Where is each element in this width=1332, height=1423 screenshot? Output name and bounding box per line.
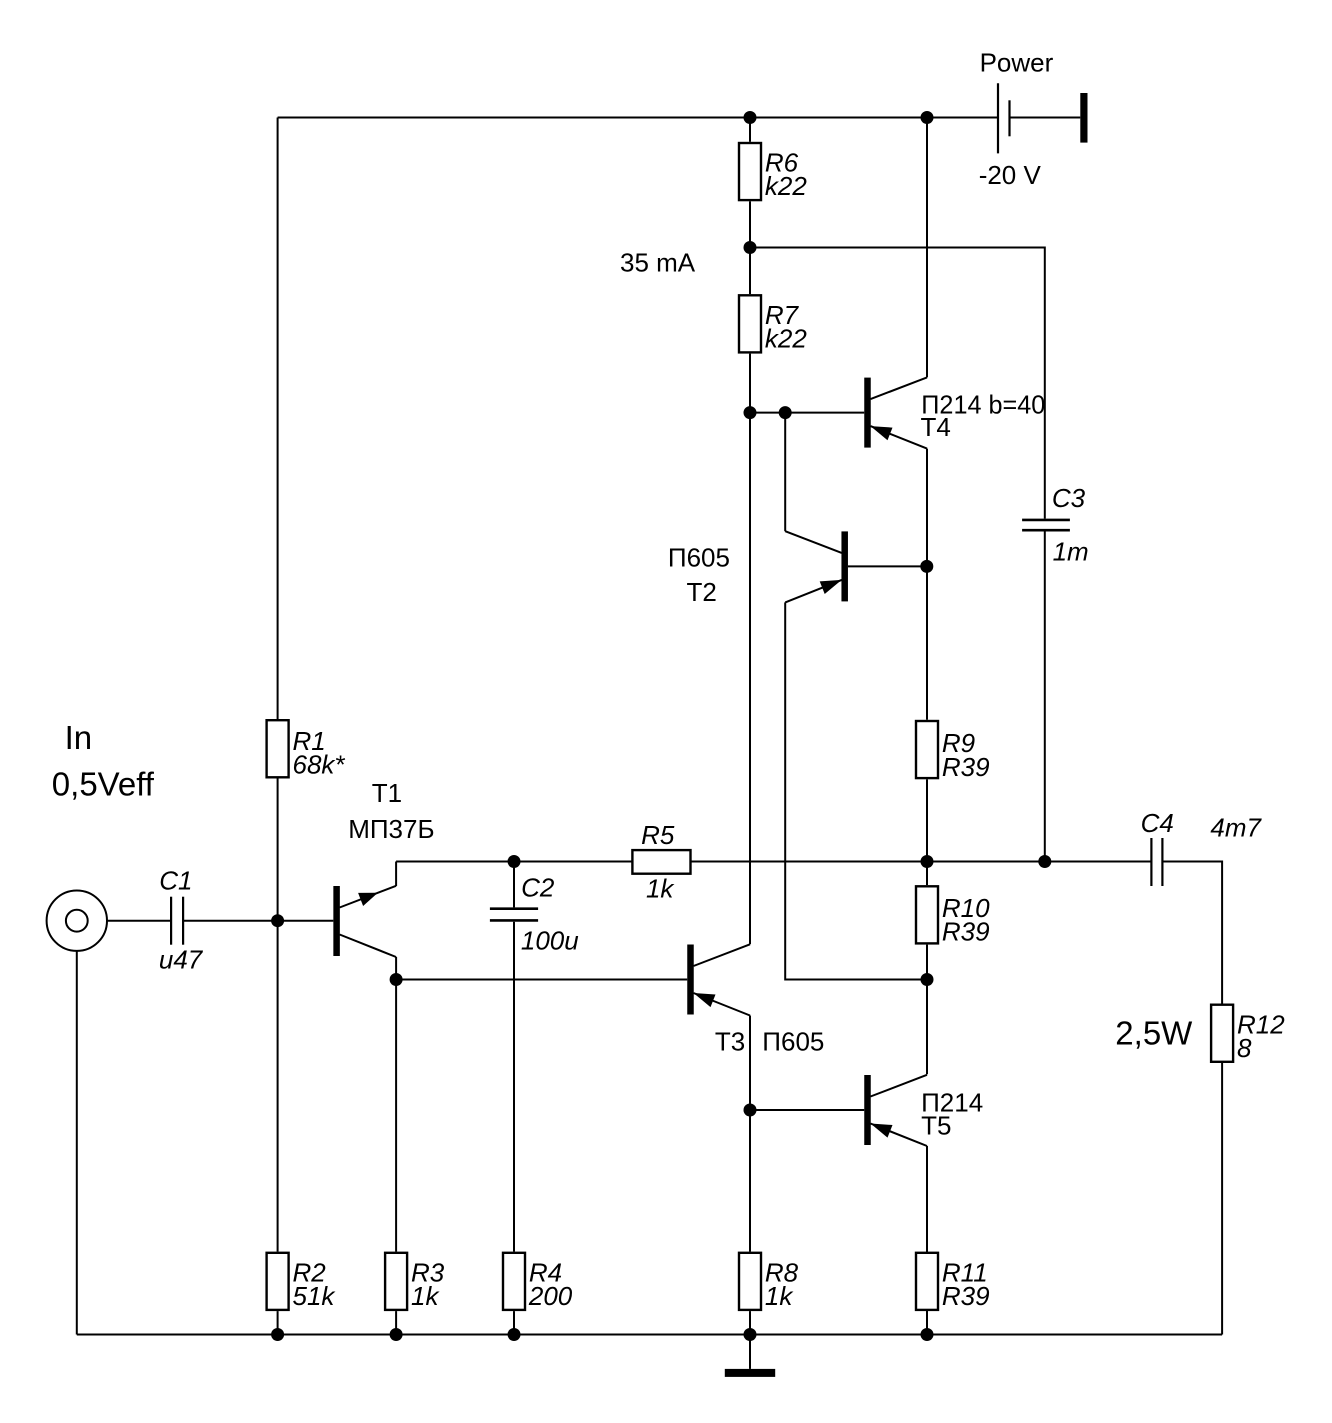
wire T2 collector up to T4 base node <box>784 413 786 532</box>
wire battery to terminal <box>1010 117 1081 119</box>
wire R6/R7 node to C3 top <box>750 248 1045 519</box>
node dot bus / C3 bottom <box>1038 855 1051 868</box>
resistor R8 <box>739 1253 799 1311</box>
resistor R4 <box>503 1253 573 1311</box>
svg-text:200: 200 <box>528 1281 573 1311</box>
node dot T4 base / R7 <box>744 406 757 419</box>
resistor R1 <box>267 720 346 780</box>
svg-text:8: 8 <box>1237 1033 1252 1063</box>
svg-text:C1: C1 <box>159 866 192 896</box>
transistor T2 (П605) <box>785 531 848 602</box>
label П214 b=40 <box>921 390 1045 420</box>
label П214 (T5) <box>921 1088 983 1118</box>
node dot bus / C2 <box>508 855 521 868</box>
wire left column from top bus to R1 <box>277 118 279 720</box>
node dot output bus / R9-R10 <box>921 855 934 868</box>
capacitor C2 <box>490 872 579 955</box>
resistor R12 <box>1211 1005 1285 1063</box>
svg-text:T3: T3 <box>715 1027 745 1057</box>
resistor R5 <box>632 820 690 903</box>
wire T1 base <box>278 920 334 922</box>
label -20 V <box>979 160 1042 190</box>
resistor R2 <box>267 1253 337 1311</box>
svg-text:-20 V: -20 V <box>979 160 1042 190</box>
wire T3 emitter down to T5 base node <box>749 1016 751 1111</box>
wire R3 to ground bus <box>395 1311 397 1334</box>
wire bus to R10 <box>926 862 928 886</box>
svg-text:C2: C2 <box>521 872 555 902</box>
wire T5 collector up to output node <box>926 980 928 1075</box>
resistor R6 <box>739 143 807 201</box>
transistor T1 (МП37Б) <box>333 886 396 957</box>
resistor R7 <box>739 295 807 353</box>
node dot T3 emitter / T5 base / R8 <box>744 1104 757 1117</box>
capacitor C4 <box>1141 808 1263 886</box>
svg-text:МП37Б: МП37Б <box>348 814 434 844</box>
capacitor C3 <box>1022 483 1089 567</box>
node dot T1 base / R1 / R2 <box>271 914 284 927</box>
label 0,5Veff <box>52 766 155 803</box>
svg-text:T4: T4 <box>921 412 951 442</box>
wire T4 base <box>750 412 864 414</box>
label T2 <box>687 577 717 607</box>
svg-text:2,5W: 2,5W <box>1115 1015 1193 1052</box>
wire C1 to T1 base node <box>183 920 278 922</box>
input connector <box>47 891 107 951</box>
wire T2 base node to R9 <box>926 566 928 719</box>
wire T2 emitter down and right to output node <box>785 602 927 979</box>
wire R1 to T1 base node <box>277 779 279 921</box>
node dot R6/R7 junction <box>744 241 757 254</box>
wire R12 to ground bus <box>1221 1063 1223 1335</box>
label In <box>65 719 93 756</box>
svg-text:R39: R39 <box>942 752 990 782</box>
svg-text:R39: R39 <box>942 916 990 946</box>
svg-text:T2: T2 <box>687 577 717 607</box>
wire T1 base node to R2 <box>277 921 279 1252</box>
svg-text:In: In <box>65 719 93 756</box>
wire T5 base <box>750 1109 864 1111</box>
wire T5 base node to R8 <box>749 1110 751 1252</box>
capacitor C1 <box>159 866 204 975</box>
svg-text:4m7: 4m7 <box>1210 812 1262 842</box>
svg-text:T1: T1 <box>372 778 402 808</box>
svg-text:П605: П605 <box>668 543 730 573</box>
wire R10 to T5 collector node <box>926 945 928 980</box>
svg-text:1k: 1k <box>765 1281 794 1311</box>
wire R6 to R7 <box>749 201 751 294</box>
wire T3 base <box>396 979 687 981</box>
node dot top bus / R6 <box>744 111 757 124</box>
wire R8 to ground bus <box>749 1311 751 1334</box>
wire bus R5 to C4 <box>691 861 1152 863</box>
resistor R11 <box>916 1253 990 1311</box>
svg-text:Power: Power <box>980 47 1054 77</box>
wire ground bus <box>77 1334 1222 1336</box>
resistor R3 <box>385 1253 445 1311</box>
node dot ground bus / T5 emitter R11 <box>921 1328 934 1341</box>
label T5 <box>921 1111 951 1141</box>
svg-text:T5: T5 <box>921 1111 951 1141</box>
svg-text:П605: П605 <box>762 1027 824 1057</box>
node dot T1 collector / T3 base <box>390 973 403 986</box>
label МП37Б <box>348 814 434 844</box>
wire T5 emitter to ground bus <box>926 1146 928 1335</box>
wire T4 collector to top bus <box>926 118 928 378</box>
wire ground stub <box>749 1335 751 1369</box>
transistor T4 (П214) <box>864 377 927 448</box>
resistor R9 <box>916 721 990 782</box>
svg-text:0,5Veff: 0,5Veff <box>52 766 155 803</box>
wire R7 to T4 base node <box>749 354 751 413</box>
svg-text:u47: u47 <box>159 944 204 974</box>
svg-text:R39: R39 <box>942 1281 990 1311</box>
node dot T2 base / T4 emitter <box>920 560 933 573</box>
node dot ground bus / R4 <box>508 1328 521 1341</box>
label T4 <box>921 412 951 442</box>
wire R4 to ground bus <box>513 1311 515 1334</box>
svg-text:C4: C4 <box>1141 808 1174 838</box>
node dot ground bus / R3 <box>390 1328 403 1341</box>
wire top -20V bus <box>278 117 998 119</box>
wire R9 to output bus <box>926 779 928 861</box>
wire top bus to R6 <box>749 118 751 142</box>
battery terminal bar <box>1080 93 1087 143</box>
svg-text:k22: k22 <box>765 171 807 201</box>
svg-text:51k: 51k <box>293 1281 337 1311</box>
transistor T3 (П605) <box>687 944 750 1015</box>
wire T4 emitter down to T2 base node <box>926 449 928 567</box>
svg-text:R5: R5 <box>641 820 675 850</box>
label П605 (T3) <box>762 1027 824 1057</box>
transistor T5 (П214) <box>864 1075 927 1146</box>
svg-text:100u: 100u <box>521 925 579 955</box>
label T1 <box>372 778 402 808</box>
wire T2 base <box>848 565 927 567</box>
wire bus to C2 <box>513 862 515 908</box>
wire bus T1 emitter to R5 <box>396 861 632 863</box>
svg-text:1m: 1m <box>1053 537 1089 567</box>
svg-text:35 mA: 35 mA <box>620 248 696 278</box>
node dot top bus / T4 collector <box>921 111 934 124</box>
label 2,5W <box>1115 1015 1193 1052</box>
wire connector to ground bus <box>76 951 78 1335</box>
wire R2 to ground bus <box>277 1311 279 1334</box>
svg-text:C3: C3 <box>1052 483 1086 513</box>
label П605 (T2) <box>668 543 730 573</box>
label 35 mA <box>620 248 696 278</box>
node dot T4 base / T2 collector branch <box>779 406 792 419</box>
wire T1 collector down to R3 <box>395 957 397 1252</box>
node dot ground bus / R8 <box>744 1328 757 1341</box>
svg-text:1k: 1k <box>411 1281 440 1311</box>
wire T3 collector up to T4 base node <box>749 413 751 945</box>
node dot ground bus / R2 <box>271 1328 284 1341</box>
wire C3 bottom to output bus <box>1044 532 1046 862</box>
svg-text:1k: 1k <box>646 874 675 904</box>
svg-text:68k*: 68k* <box>293 750 346 780</box>
node dot R10 / T5 collector / T2 emitter <box>921 973 934 986</box>
wire connector to C1 <box>107 920 171 922</box>
ground <box>725 1369 775 1377</box>
wire T1 emitter riser to feedback bus <box>395 862 397 887</box>
wire C4 to R12 <box>1162 862 1222 1004</box>
label T3 <box>715 1027 745 1057</box>
resistor R10 <box>916 886 990 946</box>
svg-text:k22: k22 <box>765 324 807 354</box>
wire C2 to R4 <box>513 922 515 1252</box>
label Power <box>980 47 1054 77</box>
battery Power plate long <box>997 83 999 153</box>
battery Power plate short <box>1008 100 1010 136</box>
